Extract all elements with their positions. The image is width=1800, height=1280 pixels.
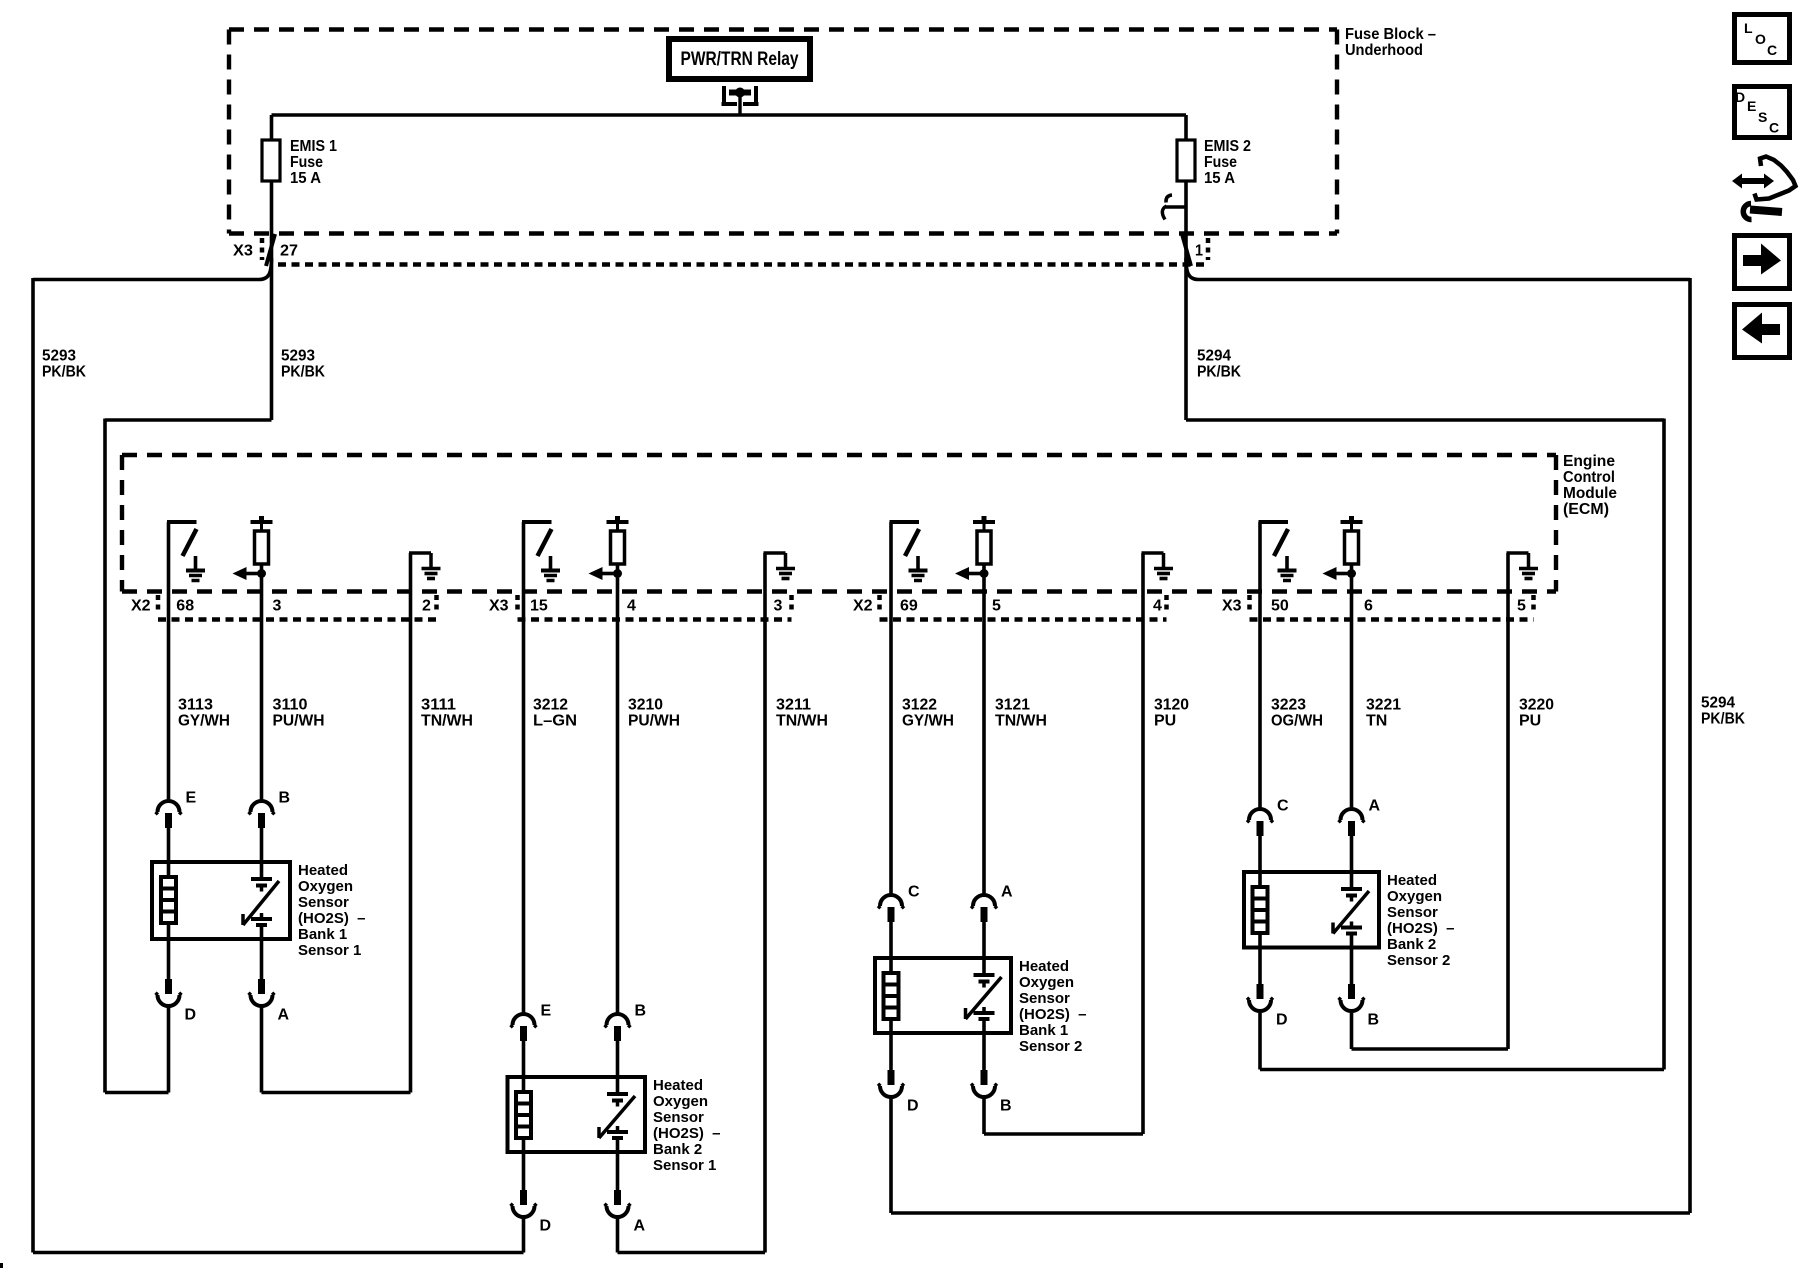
label wire 3211 xyxy=(776,697,828,730)
svg-text:L: L xyxy=(1744,20,1753,36)
label 5293 PK/BK center xyxy=(281,348,325,381)
wire sensor to terminal A xyxy=(260,939,264,979)
HO2S Bank 2 Sensor 1 box xyxy=(508,1077,646,1152)
wire 3120 PU pin 4 ground return xyxy=(1141,553,1145,1134)
svg-text:X2: X2 xyxy=(131,598,151,615)
ECM bias resistor with sense arrow, group 1 xyxy=(233,516,273,580)
svg-text:B: B xyxy=(1368,1012,1380,1029)
svg-text:Heated: Heated xyxy=(1019,958,1069,975)
HO2S Bank 1 Sensor 2 terminal C (top left) xyxy=(878,895,904,922)
svg-text:Bank 1: Bank 1 xyxy=(1019,1022,1068,1039)
label wire 3110 xyxy=(273,697,325,730)
icon DESC box xyxy=(1735,87,1790,138)
label 5294 PK/BK far right xyxy=(1701,695,1745,728)
wire 3211 TN/WH pin 3 ground return xyxy=(763,553,767,1253)
ECM internal ground, group 1 xyxy=(409,553,441,579)
svg-text:1: 1 xyxy=(1195,243,1203,260)
label wire 3122 xyxy=(902,697,954,730)
svg-text:S: S xyxy=(1758,109,1767,125)
ECM internal ground, group 3 xyxy=(1142,553,1174,579)
svg-text:3221: 3221 xyxy=(1366,697,1401,714)
svg-text:A: A xyxy=(1001,884,1013,901)
wire C blade into sensor xyxy=(1258,835,1262,872)
ECM internal ground, group 4 xyxy=(1507,553,1539,579)
relay K1 PWR/TRN Relay box xyxy=(669,39,810,79)
svg-text:Bank 2: Bank 2 xyxy=(653,1141,702,1158)
label wire 3221 xyxy=(1366,697,1401,730)
svg-text:OG/WH: OG/WH xyxy=(1271,713,1323,730)
svg-text:Fuse: Fuse xyxy=(1204,154,1237,171)
connector X3 row of fuse block xyxy=(233,238,1208,265)
wire EMIS1 fuse drop xyxy=(270,115,274,420)
wire 3212 L-GN pin 15 to HO2S B2S1 E xyxy=(522,522,526,1013)
HO2S Bank 1 Sensor 2 terminal D (bottom left) xyxy=(878,1070,904,1097)
HO2S Bank 2 Sensor 1 terminal B (top right) xyxy=(605,1014,631,1041)
ECM internal ground, group 2 xyxy=(764,553,796,579)
label Heated Oxygen Sensor (HO2S) Bank 2 Sensor 2 xyxy=(1387,872,1455,969)
HO2S Bank 1 Sensor 1 terminal B (top right) xyxy=(249,801,275,828)
HO2S Bank 1 Sensor 2 heater element xyxy=(884,958,899,1033)
HO2S Bank 1 Sensor 2 terminal A (top right) xyxy=(971,895,997,922)
svg-text:PU: PU xyxy=(1519,713,1541,730)
wire sensor to terminal B xyxy=(982,1033,986,1070)
svg-text:PWR/TRN Relay: PWR/TRN Relay xyxy=(681,49,799,70)
label wire 3121 xyxy=(995,697,1047,730)
terminal pass-through at pin 27 xyxy=(266,234,275,266)
svg-text:3223: 3223 xyxy=(1271,697,1306,714)
svg-text:Engine: Engine xyxy=(1563,453,1615,470)
label 5294 PK/BK center xyxy=(1197,348,1241,381)
label wire 3120 xyxy=(1154,697,1189,730)
label wire 3220 xyxy=(1519,697,1554,730)
svg-text:TN: TN xyxy=(1366,713,1387,730)
svg-text:3110: 3110 xyxy=(273,697,308,714)
svg-text:3122: 3122 xyxy=(902,697,937,714)
svg-text:E: E xyxy=(186,790,197,807)
HO2S Bank 2 Sensor 2 box xyxy=(1244,872,1379,948)
svg-text:15: 15 xyxy=(530,598,548,615)
svg-text:L–GN: L–GN xyxy=(533,713,577,730)
svg-text:5: 5 xyxy=(1517,598,1526,615)
wire HO2S B2S2 D to feed rail xyxy=(1260,1013,1664,1070)
ECM dashed box xyxy=(122,455,1556,592)
svg-text:X3: X3 xyxy=(233,243,253,260)
svg-text:E: E xyxy=(1747,98,1756,114)
svg-text:D: D xyxy=(540,1218,552,1235)
HO2S Bank 1 Sensor 1 sensing cell xyxy=(243,862,279,939)
HO2S Bank 1 Sensor 2 terminal B (bottom right) xyxy=(971,1070,997,1097)
ECM bias resistor with sense arrow, group 4 xyxy=(1323,516,1363,580)
svg-text:D: D xyxy=(185,1007,197,1024)
ECM connector X3 pin group 15/4/3 xyxy=(489,595,792,620)
HO2S Bank 1 Sensor 1 box xyxy=(152,862,290,939)
HO2S Bank 1 Sensor 1 terminal D (bottom left) xyxy=(156,979,182,1006)
wire 5293 PK/BK main drop to x105 xyxy=(105,419,272,1093)
svg-text:TN/WH: TN/WH xyxy=(421,713,473,730)
svg-text:TN/WH: TN/WH xyxy=(995,713,1047,730)
HO2S Bank 1 Sensor 1 heater element xyxy=(161,862,176,939)
svg-text:5294: 5294 xyxy=(1197,348,1231,365)
svg-text:A: A xyxy=(634,1218,646,1235)
wire 5294 PK/BK main to x1664 xyxy=(1186,419,1664,1070)
svg-text:Bank 2: Bank 2 xyxy=(1387,936,1436,953)
fuse block - underhood dashed box xyxy=(229,30,1337,234)
svg-text:Sensor: Sensor xyxy=(1387,904,1438,921)
wire HO2S B2S1 D to feed rail xyxy=(33,1218,524,1253)
svg-text:(HO2S) –: (HO2S) – xyxy=(653,1125,721,1142)
svg-text:Fuse: Fuse xyxy=(290,154,323,171)
wire 3210 PU/WH pin 4 to HO2S B2S1 B xyxy=(616,564,620,1013)
ECM low-side driver with ground, group 2 xyxy=(522,522,560,581)
label Heated Oxygen Sensor (HO2S) Bank 2 Sensor 1 xyxy=(653,1077,721,1174)
wire sensor to terminal D xyxy=(889,1033,893,1070)
svg-text:PU: PU xyxy=(1154,713,1176,730)
svg-text:6: 6 xyxy=(1364,598,1373,615)
icon back arrow box xyxy=(1735,305,1790,358)
wire 3121 TN/WH pin 5 to HO2S B1S2 A xyxy=(982,564,986,894)
svg-text:Oxygen: Oxygen xyxy=(298,878,353,895)
ECM low-side driver with ground, group 3 xyxy=(890,522,928,581)
HO2S Bank 1 Sensor 2 sensing cell xyxy=(966,958,1002,1033)
svg-text:5293: 5293 xyxy=(281,348,315,365)
label EMIS 2 Fuse 15 A xyxy=(1204,138,1251,187)
wire B blade into sensor xyxy=(616,1040,620,1077)
svg-text:4: 4 xyxy=(1153,598,1162,615)
svg-text:Sensor: Sensor xyxy=(1019,990,1070,1007)
svg-text:E: E xyxy=(541,1003,552,1020)
label Engine Control Module (ECM) xyxy=(1563,453,1617,518)
wire sensor to terminal B xyxy=(1350,948,1354,985)
wire HO2S B2S1 A to ground return rail xyxy=(618,1218,766,1253)
svg-text:C: C xyxy=(1767,42,1777,58)
svg-text:3120: 3120 xyxy=(1154,697,1189,714)
svg-text:2: 2 xyxy=(422,598,431,615)
svg-text:Oxygen: Oxygen xyxy=(653,1093,708,1110)
svg-text:PK/BK: PK/BK xyxy=(1701,711,1745,728)
svg-text:50: 50 xyxy=(1271,598,1289,615)
wire 3221 TN pin 6 to HO2S B2S2 A xyxy=(1350,564,1354,808)
wire 5294 PK/BK right branch to outer loop xyxy=(1186,258,1690,1213)
svg-text:(ECM): (ECM) xyxy=(1563,501,1609,518)
wire 3220 PU pin 5 ground return xyxy=(1506,553,1510,1049)
wire bus from relay output xyxy=(272,113,1187,117)
svg-text:EMIS 2: EMIS 2 xyxy=(1204,138,1251,155)
svg-text:PK/BK: PK/BK xyxy=(281,364,325,381)
svg-text:Sensor: Sensor xyxy=(298,894,349,911)
label wire 3210 xyxy=(628,697,680,730)
label 5293 PK/BK left xyxy=(42,348,86,381)
wire 5293 PK/BK left branch xyxy=(33,258,272,1253)
svg-text:15 A: 15 A xyxy=(1204,170,1235,187)
svg-text:Fuse Block –: Fuse Block – xyxy=(1345,26,1436,43)
svg-text:3121: 3121 xyxy=(995,697,1030,714)
svg-text:X3: X3 xyxy=(1222,598,1242,615)
wire sensor to terminal D xyxy=(1258,948,1262,985)
svg-text:PK/BK: PK/BK xyxy=(1197,364,1241,381)
page corner mark xyxy=(0,1263,3,1268)
label Fuse Block - Underhood xyxy=(1345,26,1436,59)
svg-text:X3: X3 xyxy=(489,598,509,615)
wire sensor to terminal D xyxy=(167,939,171,979)
HO2S Bank 2 Sensor 1 terminal A (bottom right) xyxy=(605,1190,631,1217)
svg-text:A: A xyxy=(1369,798,1381,815)
svg-text:GY/WH: GY/WH xyxy=(178,713,230,730)
wire E blade into sensor xyxy=(522,1040,526,1077)
wire 3111 TN/WH pin 2 ground return xyxy=(409,553,413,1093)
icon forward arrow box xyxy=(1735,236,1790,289)
HO2S Bank 2 Sensor 2 terminal C (top left) xyxy=(1247,809,1273,836)
wire B blade into sensor xyxy=(260,827,264,862)
wire HO2S B2S2 B to ground return rail xyxy=(1352,1013,1509,1049)
svg-text:Underhood: Underhood xyxy=(1345,42,1423,59)
svg-text:5: 5 xyxy=(992,598,1001,615)
wire A blade into sensor xyxy=(982,921,986,958)
wire EMIS2 fuse drop xyxy=(1184,115,1188,420)
HO2S Bank 2 Sensor 2 heater element xyxy=(1253,872,1268,948)
svg-text:(HO2S) –: (HO2S) – xyxy=(298,910,366,927)
svg-text:B: B xyxy=(635,1003,647,1020)
svg-text:GY/WH: GY/WH xyxy=(902,713,954,730)
svg-text:3: 3 xyxy=(273,598,282,615)
svg-text:3210: 3210 xyxy=(628,697,663,714)
wire HO2S B1S2 B to ground return rail xyxy=(984,1098,1143,1134)
svg-text:C: C xyxy=(1277,798,1289,815)
HO2S Bank 2 Sensor 1 terminal D (bottom left) xyxy=(511,1190,537,1217)
svg-text:D: D xyxy=(1276,1012,1288,1029)
HO2S Bank 1 Sensor 1 terminal E (top left) xyxy=(156,801,182,828)
svg-text:3220: 3220 xyxy=(1519,697,1554,714)
HO2S Bank 2 Sensor 2 terminal D (bottom left) xyxy=(1247,984,1273,1011)
wire HO2S B1S1 A to ground return rail xyxy=(262,1007,411,1093)
wire HO2S B1S1 D to feed rail xyxy=(105,1007,169,1093)
svg-text:Heated: Heated xyxy=(1387,872,1437,889)
svg-text:C: C xyxy=(1769,120,1779,136)
svg-text:C: C xyxy=(908,884,920,901)
svg-text:3211: 3211 xyxy=(776,697,811,714)
svg-text:Oxygen: Oxygen xyxy=(1387,888,1442,905)
wire 3223 OG/WH pin 50 to HO2S B2S2 C xyxy=(1258,522,1262,808)
ECM low-side driver with ground, group 1 xyxy=(167,522,205,581)
svg-text:TN/WH: TN/WH xyxy=(776,713,828,730)
splice hook symbol below EMIS 2 fuse xyxy=(1162,195,1186,220)
svg-text:PU/WH: PU/WH xyxy=(273,713,325,730)
HO2S Bank 1 Sensor 2 box xyxy=(875,958,1011,1033)
svg-text:Module: Module xyxy=(1563,485,1617,502)
svg-text:68: 68 xyxy=(176,598,194,615)
ECM low-side driver with ground, group 4 xyxy=(1259,522,1297,581)
svg-text:B: B xyxy=(1000,1098,1012,1115)
ECM connector X2 pin group 69/5/4 xyxy=(853,595,1167,620)
label EMIS 1 Fuse 15 A xyxy=(290,138,337,187)
svg-text:D: D xyxy=(1735,89,1745,105)
wire sensor to terminal A xyxy=(616,1152,620,1190)
svg-text:EMIS 1: EMIS 1 xyxy=(290,138,337,155)
HO2S Bank 2 Sensor 1 terminal E (top left) xyxy=(511,1014,537,1041)
ECM connector X3 pin group 50/6/5 xyxy=(1222,595,1534,620)
svg-text:Control: Control xyxy=(1563,469,1615,486)
svg-text:Oxygen: Oxygen xyxy=(1019,974,1074,991)
svg-text:(HO2S) –: (HO2S) – xyxy=(1019,1006,1087,1023)
wire A blade into sensor xyxy=(1350,835,1354,872)
ECM connector X2 pin group 68/3/2 xyxy=(131,595,437,620)
svg-text:3111: 3111 xyxy=(421,697,456,714)
svg-text:D: D xyxy=(907,1098,919,1115)
wire sensor to terminal D xyxy=(522,1152,526,1190)
HO2S Bank 1 Sensor 1 terminal A (bottom right) xyxy=(249,979,275,1006)
label wire 3113 xyxy=(178,697,230,730)
wire 3113 GY/WH pin 68 to HO2S B1S1 E xyxy=(167,522,171,800)
HO2S Bank 2 Sensor 1 heater element xyxy=(516,1077,531,1152)
svg-text:4: 4 xyxy=(627,598,636,615)
svg-text:15 A: 15 A xyxy=(290,170,321,187)
fuse F2 EMIS 2 15A xyxy=(1177,140,1195,181)
svg-text:A: A xyxy=(278,1007,290,1024)
HO2S Bank 2 Sensor 2 terminal B (bottom right) xyxy=(1339,984,1365,1011)
terminal pass-through at pin 1 xyxy=(1182,234,1191,266)
svg-text:5293: 5293 xyxy=(42,348,76,365)
label Heated Oxygen Sensor (HO2S) Bank 1 Sensor 2 xyxy=(1019,958,1087,1055)
label Heated Oxygen Sensor (HO2S) Bank 1 Sensor 1 xyxy=(298,862,366,959)
wire C blade into sensor xyxy=(889,921,893,958)
svg-text:27: 27 xyxy=(280,243,298,260)
svg-text:Sensor 2: Sensor 2 xyxy=(1387,952,1450,969)
HO2S Bank 2 Sensor 2 sensing cell xyxy=(1333,872,1369,948)
fuse F1 EMIS 1 15A xyxy=(262,140,280,181)
label wire 3212 xyxy=(533,697,577,730)
svg-text:Heated: Heated xyxy=(653,1077,703,1094)
svg-text:B: B xyxy=(279,790,291,807)
label wire 3111 xyxy=(421,697,473,730)
svg-text:Sensor 2: Sensor 2 xyxy=(1019,1038,1082,1055)
svg-text:69: 69 xyxy=(900,598,918,615)
svg-text:PU/WH: PU/WH xyxy=(628,713,680,730)
HO2S Bank 2 Sensor 2 terminal A (top right) xyxy=(1339,809,1365,836)
svg-text:3: 3 xyxy=(774,598,783,615)
svg-text:O: O xyxy=(1755,31,1766,47)
relay K1 contact symbol xyxy=(722,86,759,116)
wire 3122 GY/WH pin 69 to HO2S B1S2 C xyxy=(889,522,893,894)
svg-text:Heated: Heated xyxy=(298,862,348,879)
svg-text:3212: 3212 xyxy=(533,697,568,714)
svg-text:Bank 1: Bank 1 xyxy=(298,926,347,943)
wire E blade into sensor xyxy=(167,827,171,862)
svg-text:(HO2S) –: (HO2S) – xyxy=(1387,920,1455,937)
ECM bias resistor with sense arrow, group 2 xyxy=(589,516,629,580)
svg-text:Sensor 1: Sensor 1 xyxy=(298,942,361,959)
svg-text:PK/BK: PK/BK xyxy=(42,364,86,381)
svg-text:X2: X2 xyxy=(853,598,873,615)
svg-text:5294: 5294 xyxy=(1701,695,1735,712)
icon jump arrows with wrench xyxy=(1732,157,1796,220)
wire 3110 PU/WH pin 3 to HO2S B1S1 B xyxy=(260,564,264,800)
HO2S Bank 2 Sensor 1 sensing cell xyxy=(599,1077,635,1152)
svg-text:3113: 3113 xyxy=(178,697,213,714)
label wire 3223 xyxy=(1271,697,1323,730)
svg-text:Sensor: Sensor xyxy=(653,1109,704,1126)
svg-text:Sensor 1: Sensor 1 xyxy=(653,1157,716,1174)
ECM bias resistor with sense arrow, group 3 xyxy=(955,516,995,580)
icon LOC box xyxy=(1735,15,1790,63)
wire HO2S B1S2 D to feed rail xyxy=(891,1098,1690,1213)
